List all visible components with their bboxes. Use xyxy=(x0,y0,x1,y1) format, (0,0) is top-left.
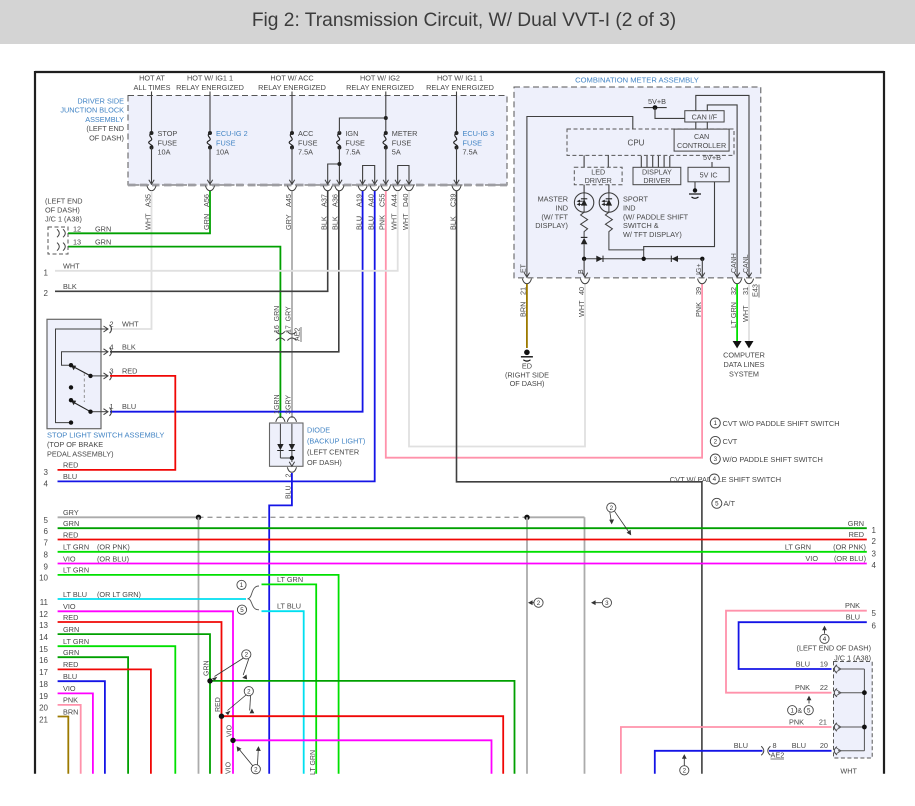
svg-text:1: 1 xyxy=(790,707,794,714)
svg-text:LT BLU: LT BLU xyxy=(63,590,87,599)
svg-text:WHT: WHT xyxy=(63,261,80,270)
svg-text:12: 12 xyxy=(39,610,48,619)
switch arm lower xyxy=(73,402,91,412)
svg-text:1: 1 xyxy=(714,420,718,427)
wire row 10 LT GRN xyxy=(58,575,339,774)
IC LED DRIVER xyxy=(574,167,622,184)
wire A36 BLK to stop light switch pin 4 xyxy=(110,191,339,352)
svg-text:VIO: VIO xyxy=(227,724,234,737)
svg-text:ECU-IG 3: ECU-IG 3 xyxy=(463,129,495,138)
svg-text:DIODE: DIODE xyxy=(307,426,330,435)
bridge pins A44-D40 xyxy=(398,166,409,184)
svg-text:IGN: IGN xyxy=(345,129,358,138)
wire row 5 GRY with dashed option xyxy=(58,516,199,518)
wire GRY drop at 584 xyxy=(584,517,586,773)
J/C internal bus xyxy=(838,668,864,670)
svg-text:DRIVER: DRIVER xyxy=(643,176,670,185)
resistor sport xyxy=(605,212,612,233)
wire IGN fuse branch to pin A37 xyxy=(328,164,340,183)
svg-text:(LEFT END: (LEFT END xyxy=(86,124,124,133)
wire row 6 GRN xyxy=(58,527,867,529)
svg-text:1: 1 xyxy=(110,402,114,411)
svg-text:HOT W/ IG1 1: HOT W/ IG1 1 xyxy=(187,74,233,83)
svg-text:16: 16 xyxy=(39,656,48,665)
fuse ACC FUSE 7.5A xyxy=(291,92,293,134)
wire A56 GRN to J/C pin 12 xyxy=(68,191,210,233)
note 2 arrows to rows 6-7 xyxy=(607,503,616,512)
svg-text:5: 5 xyxy=(240,607,244,614)
svg-text:DISPLAY: DISPLAY xyxy=(642,167,672,176)
rail B/IG+ xyxy=(584,258,702,260)
bridge pins A19-A40 xyxy=(363,166,375,184)
svg-text:LT GRN: LT GRN xyxy=(63,637,89,646)
diode (backup light) box xyxy=(276,417,285,422)
wire right row 6 BLU to J/C pin 19 xyxy=(739,622,867,669)
svg-text:7: 7 xyxy=(44,538,49,547)
wire row 13 RED xyxy=(58,622,222,774)
wire BRN pin 21 to ground ED xyxy=(526,284,528,348)
svg-text:10A: 10A xyxy=(216,148,229,157)
wire A37 BLK to row 2 xyxy=(55,191,328,291)
wire row 15 LT GRN xyxy=(58,646,176,774)
svg-text:PEDAL ASSEMBLY): PEDAL ASSEMBLY) xyxy=(47,450,114,459)
diode on rail (right-pointing) xyxy=(596,256,602,262)
wire A35 WHT to stop light switch pin 2 xyxy=(110,191,152,329)
svg-text:LT GRN: LT GRN xyxy=(310,750,317,775)
svg-text:20: 20 xyxy=(820,741,828,750)
ground internal below 5V IC xyxy=(694,182,696,189)
svg-text:MASTER: MASTER xyxy=(538,195,568,204)
note 2 arrows to VIO junction xyxy=(251,765,260,774)
svg-text:(W/ TFT: (W/ TFT xyxy=(541,212,568,221)
svg-text:COMPUTER: COMPUTER xyxy=(723,351,765,360)
svg-text:OF DASH): OF DASH) xyxy=(510,379,545,388)
svg-text:4: 4 xyxy=(44,479,49,488)
svg-text:LT GRN: LT GRN xyxy=(785,543,811,552)
svg-text:ECU-IG 2: ECU-IG 2 xyxy=(216,129,248,138)
svg-text:3: 3 xyxy=(605,600,609,607)
wire 5V+B to CAN I/F xyxy=(655,108,685,119)
svg-text:5: 5 xyxy=(807,707,811,714)
svg-text:BRN: BRN xyxy=(63,707,78,716)
svg-text:PNK: PNK xyxy=(789,718,804,727)
svg-text:PNK: PNK xyxy=(845,601,860,610)
svg-text:OF DASH): OF DASH) xyxy=(45,206,80,215)
svg-text:RED: RED xyxy=(63,660,78,669)
svg-text:OF DASH): OF DASH) xyxy=(89,133,124,142)
wire BLU pin 20 with inline connector 8 AE2 xyxy=(769,750,832,752)
legend note 1 xyxy=(710,418,720,428)
svg-text:15: 15 xyxy=(39,645,48,654)
svg-text:SWITCH &: SWITCH & xyxy=(623,221,659,230)
svg-text:39: 39 xyxy=(694,287,703,295)
svg-text:HOT W/ ACC: HOT W/ ACC xyxy=(270,74,313,83)
svg-text:DRIVER: DRIVER xyxy=(585,176,612,185)
svg-text:21: 21 xyxy=(819,718,827,727)
wire row 7 RED xyxy=(58,539,867,541)
diode master chain xyxy=(583,234,585,238)
connector J/C 1 (A38) right box xyxy=(834,662,873,759)
svg-text:RELAY ENERGIZED: RELAY ENERGIZED xyxy=(346,83,414,92)
svg-text:CONTROLLER: CONTROLLER xyxy=(677,141,726,150)
svg-text:7.5A: 7.5A xyxy=(345,148,360,157)
svg-text:VIO: VIO xyxy=(63,554,76,563)
svg-text:RELAY ENERGIZED: RELAY ENERGIZED xyxy=(176,83,244,92)
svg-text:4: 4 xyxy=(823,636,827,643)
svg-text:8: 8 xyxy=(773,741,777,750)
IC DISPLAY DRIVER xyxy=(633,167,681,184)
svg-text:AE2: AE2 xyxy=(294,328,301,341)
wire sport chain to rail xyxy=(609,234,644,259)
svg-text:FUSE: FUSE xyxy=(392,138,412,147)
svg-text:5A: 5A xyxy=(392,148,401,157)
svg-text:ALL TIMES: ALL TIMES xyxy=(134,83,171,92)
svg-text:5V IC: 5V IC xyxy=(700,171,718,180)
svg-text:12: 12 xyxy=(73,224,81,233)
wire CANH loop from CAN I/F top xyxy=(707,105,737,276)
svg-text:(W/ PADDLE SHIFT: (W/ PADDLE SHIFT xyxy=(623,212,689,221)
wire row 21 BRN xyxy=(58,717,69,774)
svg-text:6: 6 xyxy=(872,621,877,630)
svg-text:2: 2 xyxy=(872,537,877,546)
fuse IGN FUSE 7.5A xyxy=(337,131,341,135)
svg-text:40: 40 xyxy=(577,287,586,295)
svg-text:(BACKUP LIGHT): (BACKUP LIGHT) xyxy=(307,437,365,446)
svg-text:1: 1 xyxy=(44,268,49,277)
svg-text:GRN: GRN xyxy=(95,238,111,247)
svg-text:(OR PNK): (OR PNK) xyxy=(97,543,130,552)
svg-text:11: 11 xyxy=(40,598,49,607)
svg-text:VIO: VIO xyxy=(805,554,818,563)
svg-text:4: 4 xyxy=(872,561,877,570)
wire row 9 VIO xyxy=(58,563,867,565)
svg-text:2: 2 xyxy=(44,289,49,298)
svg-text:CANH: CANH xyxy=(731,253,738,273)
svg-text:STOP: STOP xyxy=(158,129,178,138)
svg-text:5V+B: 5V+B xyxy=(648,97,666,106)
resistor master xyxy=(581,212,588,233)
svg-text:7.5A: 7.5A xyxy=(298,148,313,157)
svg-text:19: 19 xyxy=(820,659,828,668)
svg-text:RED: RED xyxy=(122,366,137,375)
svg-text:21: 21 xyxy=(39,715,48,724)
svg-text:CVT: CVT xyxy=(723,437,738,446)
svg-text:5: 5 xyxy=(44,516,49,525)
wire PNK pin 21 xyxy=(621,727,832,774)
wire C55 PNK to meter pin 39 (IG+) xyxy=(386,191,702,458)
svg-text:(OR PNK): (OR PNK) xyxy=(833,543,866,552)
wire GRY drop at 527 xyxy=(526,517,528,773)
wire row 8 LT GRN xyxy=(58,551,867,553)
IC CAN I/F xyxy=(685,111,724,122)
svg-text:2: 2 xyxy=(110,320,114,329)
connector 17 GRY xyxy=(287,331,296,334)
wire A40 BLU to row 4 xyxy=(58,191,375,481)
wire IG2 feed split to IGN and METER fuses xyxy=(339,118,385,133)
svg-text:DISPLAY): DISPLAY) xyxy=(535,221,568,230)
svg-text:VIO: VIO xyxy=(63,684,76,693)
svg-text:B: B xyxy=(578,269,585,274)
svg-text:WHT: WHT xyxy=(840,767,857,776)
wire RED pin 3 to row 3 xyxy=(58,376,176,470)
svg-text:13: 13 xyxy=(39,621,48,630)
svg-text:1: 1 xyxy=(872,526,877,535)
svg-text:GRY: GRY xyxy=(286,395,293,410)
diode elements xyxy=(279,424,281,444)
wire fuse outputs to connector pins xyxy=(151,148,153,184)
stop light switch assembly xyxy=(47,319,101,428)
note 4 arrow to row 6 BLU xyxy=(824,629,826,634)
svg-text:1: 1 xyxy=(274,410,281,414)
svg-text:7.5A: 7.5A xyxy=(463,148,478,157)
svg-text:DRIVER SIDE: DRIVER SIDE xyxy=(77,97,124,106)
svg-text:WHT: WHT xyxy=(122,320,139,329)
svg-text:BLU: BLU xyxy=(846,613,860,622)
svg-text:FUSE: FUSE xyxy=(463,138,483,147)
ground ED xyxy=(524,350,530,356)
wire GRY drop at 198 xyxy=(198,517,200,773)
wire LT GRN pin 32 to data lines xyxy=(736,284,738,341)
svg-text:BLU: BLU xyxy=(63,472,77,481)
wires CPU to LED DRIVER xyxy=(583,155,585,167)
wire 5V IC to rail xyxy=(644,182,715,250)
svg-text:20: 20 xyxy=(39,704,48,713)
svg-text:2: 2 xyxy=(245,652,249,659)
svg-text:2: 2 xyxy=(254,766,258,773)
wire IG+ pin down xyxy=(701,259,703,276)
svg-text:VIO: VIO xyxy=(63,602,76,611)
svg-text:SYSTEM: SYSTEM xyxy=(729,370,759,379)
svg-text:4: 4 xyxy=(713,476,717,483)
svg-text:VIO: VIO xyxy=(226,761,233,774)
wire BLU diode pin 2 down left xyxy=(269,473,292,774)
svg-text:PNK: PNK xyxy=(795,683,810,692)
wire B pin down xyxy=(583,259,585,276)
legend note 3 xyxy=(710,454,720,464)
fuse ECU-IG 2 FUSE 10A xyxy=(209,92,211,134)
svg-text:BLU: BLU xyxy=(122,402,136,411)
svg-text:(LEFT END OF DASH): (LEFT END OF DASH) xyxy=(797,643,871,652)
svg-text:HOT AT: HOT AT xyxy=(139,74,165,83)
wire row 18 BLU xyxy=(58,681,105,774)
svg-text:LT GRN: LT GRN xyxy=(63,543,89,552)
svg-text:CVT W/ PADDLE SHIFT SWITCH: CVT W/ PADDLE SHIFT SWITCH xyxy=(670,475,781,484)
svg-text:BLU: BLU xyxy=(796,659,810,668)
svg-text:LT GRN: LT GRN xyxy=(63,566,89,575)
LED SPORT IND xyxy=(608,185,610,193)
svg-text:16 GRN: 16 GRN xyxy=(274,306,281,333)
svg-text:GRY: GRY xyxy=(63,508,79,517)
svg-text:9: 9 xyxy=(44,562,49,571)
legend note 2 xyxy=(710,436,720,446)
svg-text:22: 22 xyxy=(820,683,828,692)
LED MASTER IND xyxy=(583,185,585,193)
wire A44 WHT to row 1 xyxy=(55,191,398,271)
svg-text:(OR BLU): (OR BLU) xyxy=(834,554,866,563)
svg-text:(LEFT END: (LEFT END xyxy=(45,197,83,206)
svg-text:W/O PADDLE SHIFT SWITCH: W/O PADDLE SHIFT SWITCH xyxy=(723,455,823,464)
svg-text:IND: IND xyxy=(623,204,636,213)
svg-text:LT GRN: LT GRN xyxy=(277,575,303,584)
svg-text:13: 13 xyxy=(73,238,81,247)
svg-text:HOT W/ IG1 1: HOT W/ IG1 1 xyxy=(437,74,483,83)
svg-text:Fig 2: Transmission Circuit, W: Fig 2: Transmission Circuit, W/ Dual VVT… xyxy=(252,10,676,31)
svg-text:14: 14 xyxy=(39,633,48,642)
svg-text:RED: RED xyxy=(63,530,78,539)
svg-text:W/ TFT DISPLAY): W/ TFT DISPLAY) xyxy=(623,230,682,239)
svg-text:FUSE: FUSE xyxy=(345,138,365,147)
svg-text:(LEFT CENTER: (LEFT CENTER xyxy=(307,447,359,456)
svg-text:RED: RED xyxy=(215,697,222,712)
svg-text:3: 3 xyxy=(44,468,49,477)
svg-text:J/C 1 (A38): J/C 1 (A38) xyxy=(834,653,871,662)
svg-text:BLU: BLU xyxy=(63,672,77,681)
svg-text:BLK: BLK xyxy=(122,342,136,351)
diode on rail (left-pointing) xyxy=(672,256,678,262)
wire C39 BLK long run to bottom xyxy=(457,191,702,774)
note 2 arrow to GRY 527 xyxy=(534,598,543,607)
fuse METER FUSE 5A xyxy=(385,92,387,134)
combination meter assembly box xyxy=(514,87,761,278)
svg-text:5: 5 xyxy=(715,501,719,508)
svg-text:3: 3 xyxy=(110,366,114,375)
svg-text:GRN: GRN xyxy=(848,519,864,528)
junction block pin arrowheads and connectors xyxy=(149,180,154,185)
svg-text:LT BLU: LT BLU xyxy=(277,602,301,611)
svg-text:4: 4 xyxy=(110,342,114,351)
svg-text:SPORT: SPORT xyxy=(623,195,649,204)
svg-text:BLU: BLU xyxy=(734,741,748,750)
wire ET: CPU to pin 21 xyxy=(527,117,633,277)
selection brace row 11 xyxy=(248,586,260,610)
svg-text:AE2: AE2 xyxy=(771,751,785,760)
wire row 20 PNK xyxy=(58,705,81,774)
svg-text:18: 18 xyxy=(39,680,48,689)
svg-text:(TOP OF BRAKE: (TOP OF BRAKE xyxy=(47,440,103,449)
svg-text:METER: METER xyxy=(392,129,418,138)
svg-text:COMBINATION METER ASSEMBLY: COMBINATION METER ASSEMBLY xyxy=(575,76,699,85)
switch internal wiring xyxy=(56,329,100,423)
svg-text:IND: IND xyxy=(555,204,568,213)
svg-text:5: 5 xyxy=(872,609,877,618)
wire row 17 RED xyxy=(58,669,151,773)
wire WHT pin 31 to data lines xyxy=(748,284,750,341)
note 2 arrow to BLU pin 20 wire xyxy=(683,757,685,766)
svg-text:A/T: A/T xyxy=(724,499,736,508)
IC CAN CONTROLLER xyxy=(674,129,729,151)
svg-text:ET: ET xyxy=(521,263,528,273)
wire D40 WHT to meter pin 40 (B) xyxy=(409,191,585,447)
fuse STOP FUSE 10A xyxy=(151,92,153,134)
note 2 arrows to RED junction xyxy=(244,687,253,696)
svg-text:PNK: PNK xyxy=(63,696,78,705)
bus CPU to DISPLAY DRIVER xyxy=(640,156,642,167)
svg-text:2: 2 xyxy=(537,600,541,607)
svg-text:3: 3 xyxy=(714,456,718,463)
wire RED branch right xyxy=(222,716,504,774)
svg-text:GRN: GRN xyxy=(63,519,79,528)
svg-text:FUSE: FUSE xyxy=(158,138,178,147)
svg-text:WHT: WHT xyxy=(577,300,586,317)
wires CAN I/F to CAN CONTROLLER xyxy=(695,122,697,129)
svg-text:BLK: BLK xyxy=(63,282,77,291)
svg-text:3: 3 xyxy=(872,550,877,559)
svg-text:(RIGHT SIDE: (RIGHT SIDE xyxy=(505,370,549,379)
svg-text:OF DASH): OF DASH) xyxy=(307,458,342,467)
svg-text:GRN: GRN xyxy=(274,394,281,410)
svg-text:JUNCTION BLOCK: JUNCTION BLOCK xyxy=(60,106,124,115)
svg-text:FUSE: FUSE xyxy=(216,138,236,147)
svg-text:STOP LIGHT SWITCH ASSEMBLY: STOP LIGHT SWITCH ASSEMBLY xyxy=(47,431,164,440)
svg-text:E43: E43 xyxy=(751,284,760,297)
wire VIO branch right xyxy=(233,740,492,773)
svg-text:RED: RED xyxy=(63,613,78,622)
svg-text:GRN: GRN xyxy=(63,625,79,634)
wire GRN J/C pin 13 to diode pin 1 xyxy=(68,247,280,418)
title bar xyxy=(0,0,915,44)
svg-text:&: & xyxy=(798,708,803,715)
fuse ECU-IG 3 FUSE 7.5A xyxy=(456,92,458,134)
svg-text:J/C 1 (A38): J/C 1 (A38) xyxy=(45,215,82,224)
svg-text:PNK: PNK xyxy=(694,302,703,317)
svg-text:CVT W/O PADDLE SHIFT SWITCH: CVT W/O PADDLE SHIFT SWITCH xyxy=(723,419,840,428)
driver side junction block assembly box xyxy=(128,96,507,186)
wire row 19 VIO xyxy=(58,693,93,773)
svg-text:DATA LINES: DATA LINES xyxy=(723,360,764,369)
svg-text:19: 19 xyxy=(39,692,48,701)
diagram frame xyxy=(35,71,884,73)
meter exit arrowheads and connectors xyxy=(524,273,529,278)
wire A19 BLU to stop light switch pin 1 xyxy=(110,191,363,412)
svg-text:2: 2 xyxy=(714,439,718,446)
svg-text:3: 3 xyxy=(286,410,293,414)
svg-text:CANL: CANL xyxy=(743,254,750,273)
IC CPU xyxy=(567,129,734,155)
note 3 arrow to GRY 584 xyxy=(602,598,611,607)
svg-text:GRN: GRN xyxy=(63,648,79,657)
svg-text:RELAY ENERGIZED: RELAY ENERGIZED xyxy=(258,83,326,92)
note 2 arrows to GRN junction xyxy=(242,650,251,659)
svg-text:RED: RED xyxy=(849,530,864,539)
switch arm upper xyxy=(73,367,91,376)
svg-text:2: 2 xyxy=(683,768,687,775)
note 1 and 5 pointer xyxy=(788,706,797,715)
svg-text:ED: ED xyxy=(522,362,532,371)
wire row 16 GRN xyxy=(58,657,129,774)
svg-text:17 GRY: 17 GRY xyxy=(286,306,293,333)
svg-text:LED: LED xyxy=(591,167,605,176)
svg-text:FUSE: FUSE xyxy=(298,138,318,147)
switch pin arrows xyxy=(104,326,109,332)
svg-text:ASSEMBLY: ASSEMBLY xyxy=(85,115,124,124)
svg-text:10A: 10A xyxy=(158,148,171,157)
svg-text:BLU: BLU xyxy=(792,741,806,750)
wire right row 5 PNK to J/C pin 22 xyxy=(726,611,867,693)
svg-text:2: 2 xyxy=(610,505,614,512)
svg-text:CAN: CAN xyxy=(694,132,709,141)
wire row 12 VIO xyxy=(58,611,233,773)
svg-text:GRN: GRN xyxy=(95,224,111,233)
svg-text:5V+B: 5V+B xyxy=(703,153,721,162)
wire CANL loop from CAN I/F top xyxy=(696,95,749,276)
svg-text:1: 1 xyxy=(240,582,244,589)
legend note 5 xyxy=(712,498,722,508)
connector 16 GRN xyxy=(276,331,285,334)
svg-text:2: 2 xyxy=(247,688,251,695)
svg-text:CAN I/F: CAN I/F xyxy=(692,112,718,121)
svg-text:ACC: ACC xyxy=(298,129,313,138)
svg-text:GRN: GRN xyxy=(204,660,211,676)
